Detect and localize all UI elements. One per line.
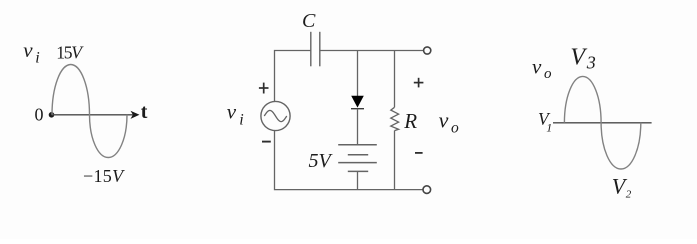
svg-text:i: i bbox=[239, 111, 243, 128]
svg-text:R: R bbox=[403, 109, 417, 133]
wire top-left (corner to capacitor) bbox=[275, 51, 311, 102]
svg-text:v: v bbox=[227, 100, 237, 124]
plus sign (output) bbox=[414, 78, 424, 88]
output terminal bottom bbox=[423, 186, 431, 194]
diode D1 bbox=[351, 96, 364, 108]
output terminal top bbox=[424, 47, 431, 54]
svg-text:15V: 15V bbox=[56, 43, 84, 63]
capacitor C plates bbox=[311, 32, 320, 67]
svg-text:o: o bbox=[544, 66, 552, 82]
resistor R zigzag bbox=[391, 107, 399, 130]
svg-text:−15V: −15V bbox=[83, 166, 125, 186]
svg-text:0: 0 bbox=[35, 105, 44, 125]
wire top (capacitor to output terminal) bbox=[320, 50, 424, 52]
origin dot bbox=[49, 112, 55, 118]
svg-text:5V: 5V bbox=[309, 150, 334, 172]
minus sign (source) bbox=[262, 141, 271, 143]
svg-text:1: 1 bbox=[546, 120, 552, 134]
svg-text:v: v bbox=[439, 108, 449, 133]
wire diode branch (top rail down to diode) bbox=[357, 51, 359, 97]
wire resistor branch top bbox=[394, 51, 396, 108]
minus sign (output) bbox=[415, 152, 423, 154]
svg-text:i: i bbox=[35, 50, 39, 67]
wire resistor branch bottom bbox=[394, 131, 396, 190]
wire diode to battery bbox=[357, 109, 359, 145]
t axis bbox=[52, 114, 136, 116]
svg-text:V: V bbox=[570, 44, 587, 70]
sine waveform v_i bbox=[52, 65, 127, 158]
svg-text:o: o bbox=[451, 120, 459, 137]
wire left-bottom (source to bottom rail) bbox=[275, 131, 358, 190]
AC source v_i bbox=[261, 101, 290, 130]
battery 5V bbox=[338, 145, 377, 172]
svg-text:3: 3 bbox=[586, 52, 596, 72]
svg-text:v: v bbox=[532, 55, 542, 79]
wire bottom rail bbox=[358, 189, 423, 191]
svg-text:2: 2 bbox=[626, 189, 632, 201]
sine waveform v_o bbox=[564, 76, 640, 169]
svg-text:C: C bbox=[302, 10, 316, 32]
plus sign (source) bbox=[259, 83, 269, 94]
svg-text:t: t bbox=[141, 101, 148, 123]
wire battery to bottom rail bbox=[357, 171, 359, 189]
svg-text:v: v bbox=[23, 38, 33, 62]
baseline (V1 level) bbox=[553, 122, 652, 124]
